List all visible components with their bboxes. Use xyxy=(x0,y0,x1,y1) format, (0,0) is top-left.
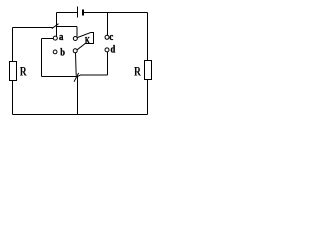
svg-text:a: a xyxy=(59,33,64,44)
wire node J2 down to bottom xyxy=(77,76,79,115)
wire left branch horizontal to node J2 xyxy=(42,76,78,78)
resistor R2 box xyxy=(145,61,152,80)
svg-text:c: c xyxy=(109,33,113,44)
node J2 diagonal jog xyxy=(74,73,79,82)
wire node J1 to switch feed horizontal xyxy=(57,26,78,28)
wire terminal a to left branch xyxy=(42,38,54,40)
terminal b circle xyxy=(53,50,57,54)
wire left vertical from corner down through node J1 to terminal a xyxy=(56,13,58,37)
wire left horizontal to node J1 xyxy=(13,27,53,29)
switch K blade 1 xyxy=(77,32,91,37)
wire pivot P2 down to node J2 xyxy=(75,53,78,76)
svg-text:K: K xyxy=(85,35,91,45)
svg-text:b: b xyxy=(60,48,65,59)
wire left vertical lower xyxy=(12,81,14,115)
wire down to switch pivot P1 xyxy=(76,27,78,37)
terminal c circle xyxy=(105,35,109,39)
wire terminal d vertical xyxy=(107,52,109,75)
wire top-right from battery to right corner xyxy=(84,12,148,14)
switch K handle top tick xyxy=(91,32,94,34)
svg-text:d: d xyxy=(111,45,116,56)
wire terminal c up to top xyxy=(107,13,109,36)
switch pivot P1 circle xyxy=(73,37,77,41)
switch K handle bottom edge xyxy=(85,43,94,45)
wire left branch vertical xyxy=(41,39,43,77)
wire node J2 to terminal d horizontal xyxy=(80,74,108,76)
wire right vertical lower xyxy=(147,80,149,115)
wire right vertical upper xyxy=(147,13,149,61)
wire top-left from battery to corner xyxy=(57,12,78,14)
node J2 hook to d-branch xyxy=(77,75,80,77)
wire left vertical upper xyxy=(12,28,14,62)
svg-text:R: R xyxy=(134,65,142,79)
node J1 diagonal jog xyxy=(52,24,59,29)
switch K handle right edge xyxy=(93,33,95,44)
battery long plate xyxy=(77,6,79,17)
terminal a circle xyxy=(53,36,57,40)
switch pivot P2 circle xyxy=(73,49,77,53)
resistor R1 box xyxy=(10,62,17,81)
terminal d circle xyxy=(105,48,109,52)
wire bottom xyxy=(13,114,148,116)
svg-text:R: R xyxy=(20,65,28,79)
switch K blade 2 xyxy=(77,43,85,49)
battery short plate xyxy=(82,9,84,15)
